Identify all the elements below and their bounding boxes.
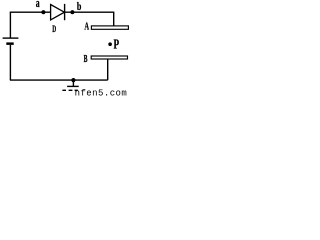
svg-text:nfen5.com: nfen5.com <box>75 88 128 97</box>
ground dashed bar <box>62 89 77 91</box>
svg-text:P: P <box>114 37 120 52</box>
wire bottom horizontal <box>10 79 108 81</box>
wire top-left horizontal <box>10 11 51 13</box>
point p label <box>114 37 120 52</box>
wire plate B down <box>107 59 109 80</box>
plate B label <box>84 54 88 65</box>
ground bar <box>67 85 79 87</box>
plate A label <box>84 20 89 32</box>
svg-text:A: A <box>84 20 89 32</box>
diode D <box>51 4 65 20</box>
svg-text:b: b <box>77 0 82 13</box>
node a <box>41 10 45 14</box>
wire left bottom vertical <box>9 45 11 80</box>
node b <box>70 10 74 14</box>
node a label <box>36 0 40 10</box>
diode D label <box>52 24 56 34</box>
wire down to plate A <box>113 12 115 26</box>
node b label <box>77 0 82 13</box>
svg-text:a: a <box>36 0 40 10</box>
battery short thick plate <box>6 42 13 45</box>
plate B <box>91 56 127 59</box>
svg-text:D: D <box>52 24 56 34</box>
svg-text:B: B <box>84 54 88 65</box>
battery long plate <box>3 37 19 39</box>
ground junction dot <box>71 78 75 82</box>
wire left top vertical <box>9 12 11 38</box>
point p dot <box>108 42 112 46</box>
wire diode to corner <box>65 11 114 13</box>
plate A <box>91 26 128 29</box>
watermark <box>75 88 128 98</box>
ground stem <box>72 80 74 86</box>
